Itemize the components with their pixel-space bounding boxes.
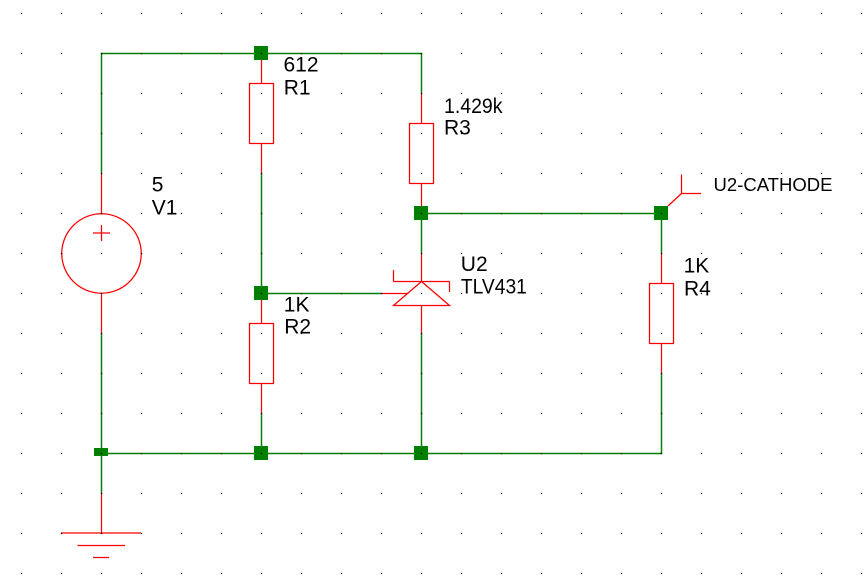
shunt regulator U2 TLV431	[382, 254, 450, 334]
resistor R3	[410, 94, 434, 214]
wire node CATHODE horizontal	[422, 213, 662, 215]
wire V1 bottom to ground node	[101, 334, 103, 494]
svg-text:R2: R2	[284, 316, 311, 339]
wire R4 bottom to ground rail	[661, 374, 663, 454]
voltage source V1	[62, 174, 142, 334]
wire left vertical from top corner to V1	[101, 54, 103, 174]
junction node CATHODE at R3 bottom	[414, 206, 428, 220]
svg-text:R1: R1	[284, 77, 311, 100]
wire bottom ground rail	[102, 453, 662, 455]
junction node CATHODE at R4 top	[654, 206, 668, 220]
ground	[61, 494, 141, 558]
svg-text:612: 612	[284, 54, 319, 77]
wire node CATHODE to U2 cathode stub	[421, 214, 423, 254]
wire REF horizontal to U2 reference	[262, 293, 382, 295]
wire R1 bottom to node REF	[261, 174, 263, 294]
svg-text:R4: R4	[684, 278, 711, 301]
junction node at R1 top / VIN	[254, 46, 268, 60]
resistor R4	[650, 254, 674, 374]
svg-text:1K: 1K	[684, 255, 710, 278]
svg-text:R3: R3	[444, 117, 471, 140]
wire R2 bottom to ground rail	[261, 414, 263, 454]
junction node ground rail at R2	[254, 446, 268, 460]
wire top corner to R3 top	[421, 54, 423, 94]
net tag U2-CATHODE pin flag	[668, 175, 701, 207]
junction node ground rail at U2 anode	[414, 446, 428, 460]
svg-text:1.429k: 1.429k	[444, 95, 503, 118]
resistor R1	[250, 54, 274, 174]
wire right vertical CATHODE node to R4	[661, 214, 663, 254]
svg-text:1K: 1K	[284, 294, 310, 317]
junction node REF at R2 top	[254, 286, 268, 300]
svg-text:V1: V1	[152, 197, 178, 220]
resistor R2	[250, 294, 274, 414]
svg-text:TLV431: TLV431	[461, 276, 527, 299]
wire U2 anode to ground rail	[421, 334, 423, 454]
svg-text:U2-CATHODE: U2-CATHODE	[714, 175, 833, 195]
wire top horizontal net VIN	[102, 53, 422, 55]
junction node ground rail at V1	[94, 448, 108, 456]
svg-text:5: 5	[152, 174, 164, 197]
svg-text:U2: U2	[461, 253, 488, 276]
